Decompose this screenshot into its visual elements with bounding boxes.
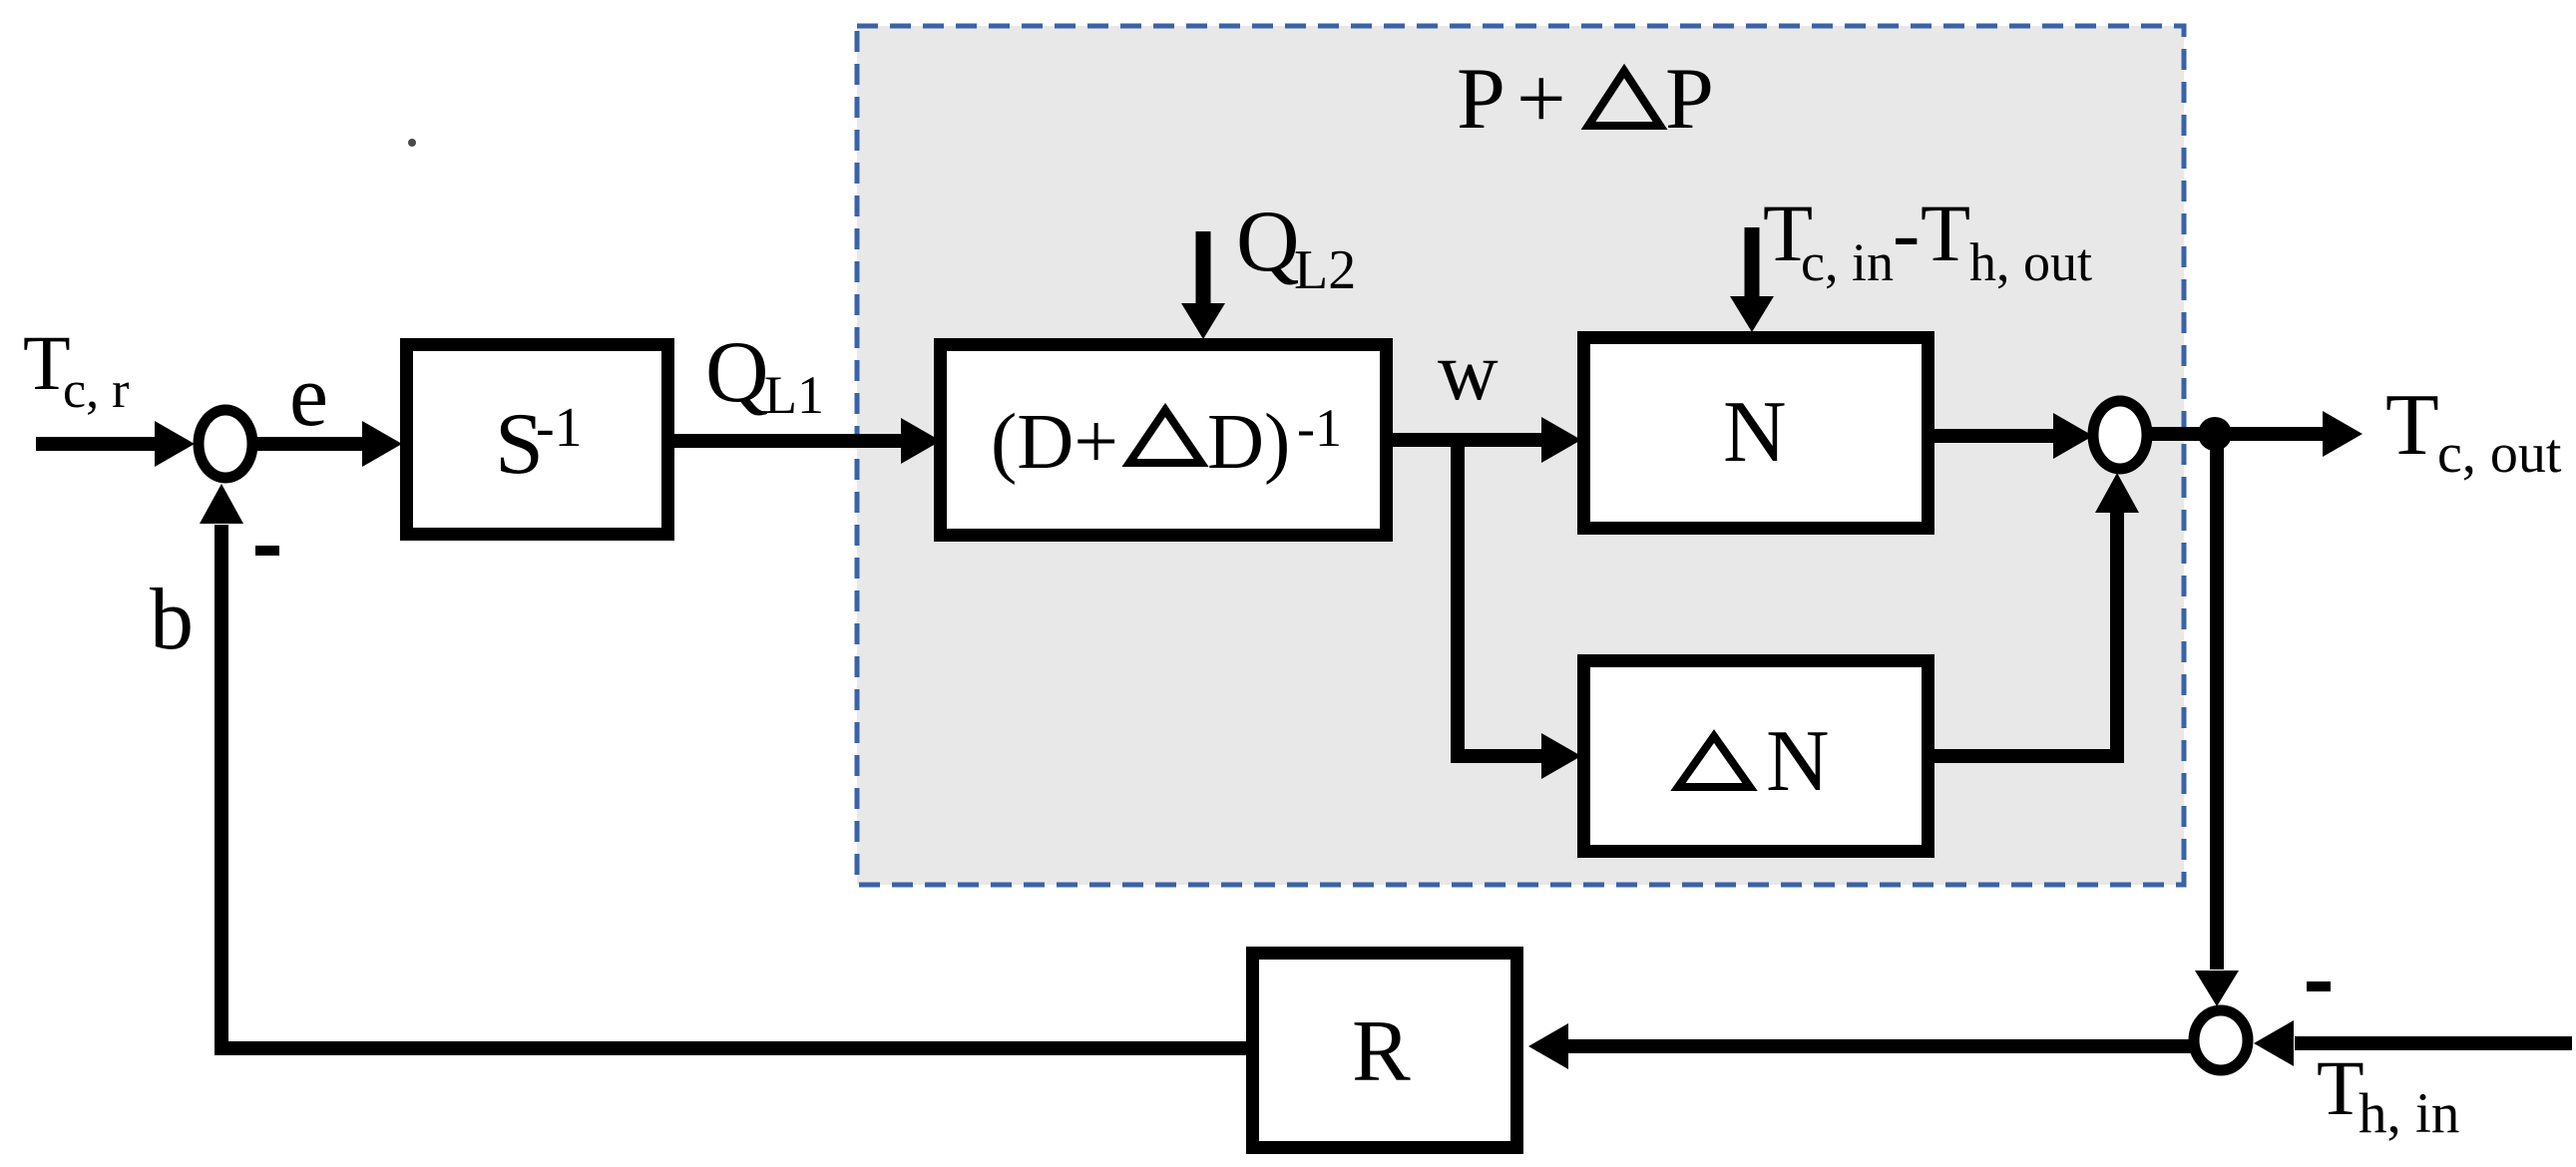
svg-text:L1: L1 <box>764 365 824 425</box>
svg-text:Q: Q <box>1236 194 1300 290</box>
svg-text:b: b <box>150 572 194 668</box>
svg-text:P: P <box>1665 51 1714 148</box>
svg-text:Q: Q <box>705 324 769 421</box>
svg-text:D): D) <box>1207 399 1290 486</box>
svg-text:c, r: c, r <box>63 362 129 419</box>
svg-text:+: + <box>1516 51 1566 148</box>
svg-text:-1: -1 <box>536 397 583 459</box>
svg-text:-: - <box>1893 188 1920 278</box>
svg-text:h, in: h, in <box>2359 1082 2459 1145</box>
svg-text:T: T <box>2317 1044 2364 1131</box>
svg-text:c, out: c, out <box>2437 423 2562 485</box>
svg-text:T: T <box>1921 188 1970 278</box>
svg-text:w: w <box>1438 325 1499 418</box>
svg-text:c, in: c, in <box>1801 232 1894 292</box>
svg-text:h, out: h, out <box>1969 232 2092 292</box>
svg-text:N: N <box>1766 713 1830 810</box>
svg-text:L2: L2 <box>1294 239 1356 301</box>
svg-text:-1: -1 <box>1297 398 1342 458</box>
svg-text:N: N <box>1723 384 1787 481</box>
svg-text:e: e <box>289 348 328 445</box>
svg-text:P: P <box>1457 51 1505 148</box>
svg-text:R: R <box>1352 1003 1411 1100</box>
svg-text:T: T <box>2385 377 2439 474</box>
svg-text:(D+: (D+ <box>991 399 1118 486</box>
